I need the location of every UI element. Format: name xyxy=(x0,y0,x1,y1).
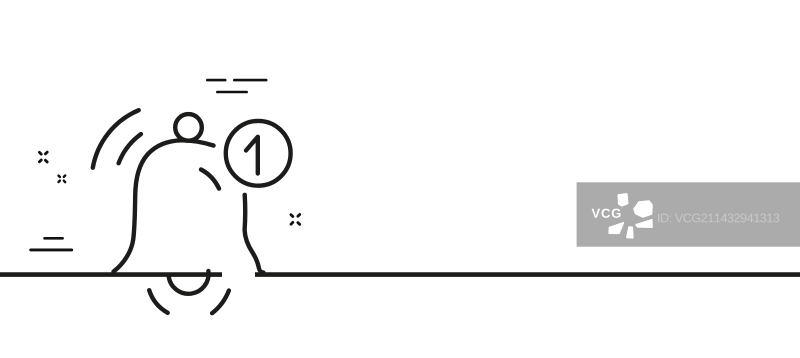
bell shine arc inner right xyxy=(201,170,219,189)
sparkle right of bell xyxy=(291,215,300,225)
deco dash left short xyxy=(45,237,63,240)
bell body left outline and dome xyxy=(114,140,214,271)
wire baseline right segment xyxy=(255,272,800,277)
bell knob circle xyxy=(175,114,202,141)
clapper semicircle xyxy=(169,271,209,294)
watermark VCG logo petals xyxy=(609,194,652,238)
deco dash left long xyxy=(31,248,72,251)
swing arc lower right xyxy=(212,291,229,314)
watermark panel xyxy=(577,182,800,246)
sparkle upper-left xyxy=(39,152,47,162)
swing arc lower left xyxy=(149,290,168,313)
deco dash top A xyxy=(207,79,225,82)
notification badge circle xyxy=(226,121,291,186)
watermark ID text xyxy=(658,214,779,223)
wire baseline left segment xyxy=(0,272,222,277)
numeral 1 inside badge xyxy=(246,137,258,174)
watermark VCG text xyxy=(592,209,621,218)
sparkle small left xyxy=(59,176,66,183)
deco dash top B xyxy=(234,79,266,82)
deco dash top C xyxy=(217,91,246,94)
swing arc inner upper-left xyxy=(119,134,141,163)
swing arc outer upper-left xyxy=(93,110,139,168)
bell body right side below badge xyxy=(245,195,264,273)
